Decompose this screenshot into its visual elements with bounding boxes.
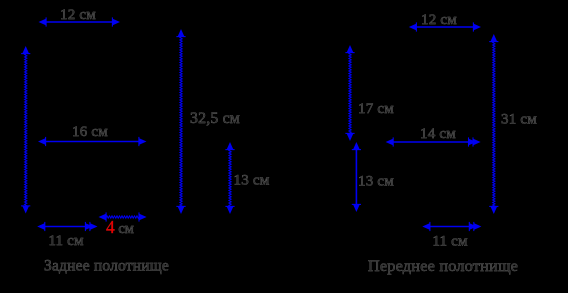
svg-text:13 см: 13 см: [358, 173, 394, 189]
dimension arrow 4 см (back panel, red flare, wavy): [99, 212, 147, 221]
svg-text:14 см: 14 см: [420, 126, 456, 142]
svg-text:31 см: 31 см: [501, 112, 537, 128]
dimension arrow 17 см (front panel, upper left, wavy): [345, 45, 354, 141]
svg-text:4 см: 4 см: [106, 217, 134, 237]
dimension arrow 12 см (back panel, top width): [39, 17, 121, 26]
dimension arrow left side (back panel, wavy): [21, 46, 30, 214]
svg-text:Заднее полотнище: Заднее полотнище: [44, 258, 169, 275]
svg-text:32,5 см: 32,5 см: [190, 110, 240, 127]
dimension arrow 13 см (back panel, lower height, wavy): [225, 142, 234, 214]
svg-text:Переднее полотнище: Переднее полотнище: [368, 256, 518, 275]
dimension arrow 11 см (back panel, bottom): [37, 222, 97, 231]
dimension arrow 12 см (front panel, top width): [409, 22, 481, 31]
svg-text:17 см: 17 см: [358, 101, 394, 117]
svg-text:11 см: 11 см: [48, 233, 84, 249]
dimension arrow 31 см (front panel, total height, wavy): [489, 34, 498, 214]
svg-text:13 см: 13 см: [234, 173, 270, 189]
dimension arrow 13 см (front panel, lower left): [352, 142, 361, 212]
dimension arrow 32,5 см (back panel, total height, wavy): [176, 29, 185, 214]
svg-text:12 см: 12 см: [60, 7, 96, 23]
svg-text:12 см: 12 см: [421, 12, 457, 28]
dimension arrow 16 см (back panel, mid width): [38, 137, 147, 146]
svg-text:11 см: 11 см: [432, 234, 468, 250]
dimension arrow 11 см (front panel, bottom): [422, 222, 481, 231]
dimension arrow 14 см (front panel, mid width): [386, 137, 481, 146]
svg-text:16 см: 16 см: [72, 124, 108, 140]
